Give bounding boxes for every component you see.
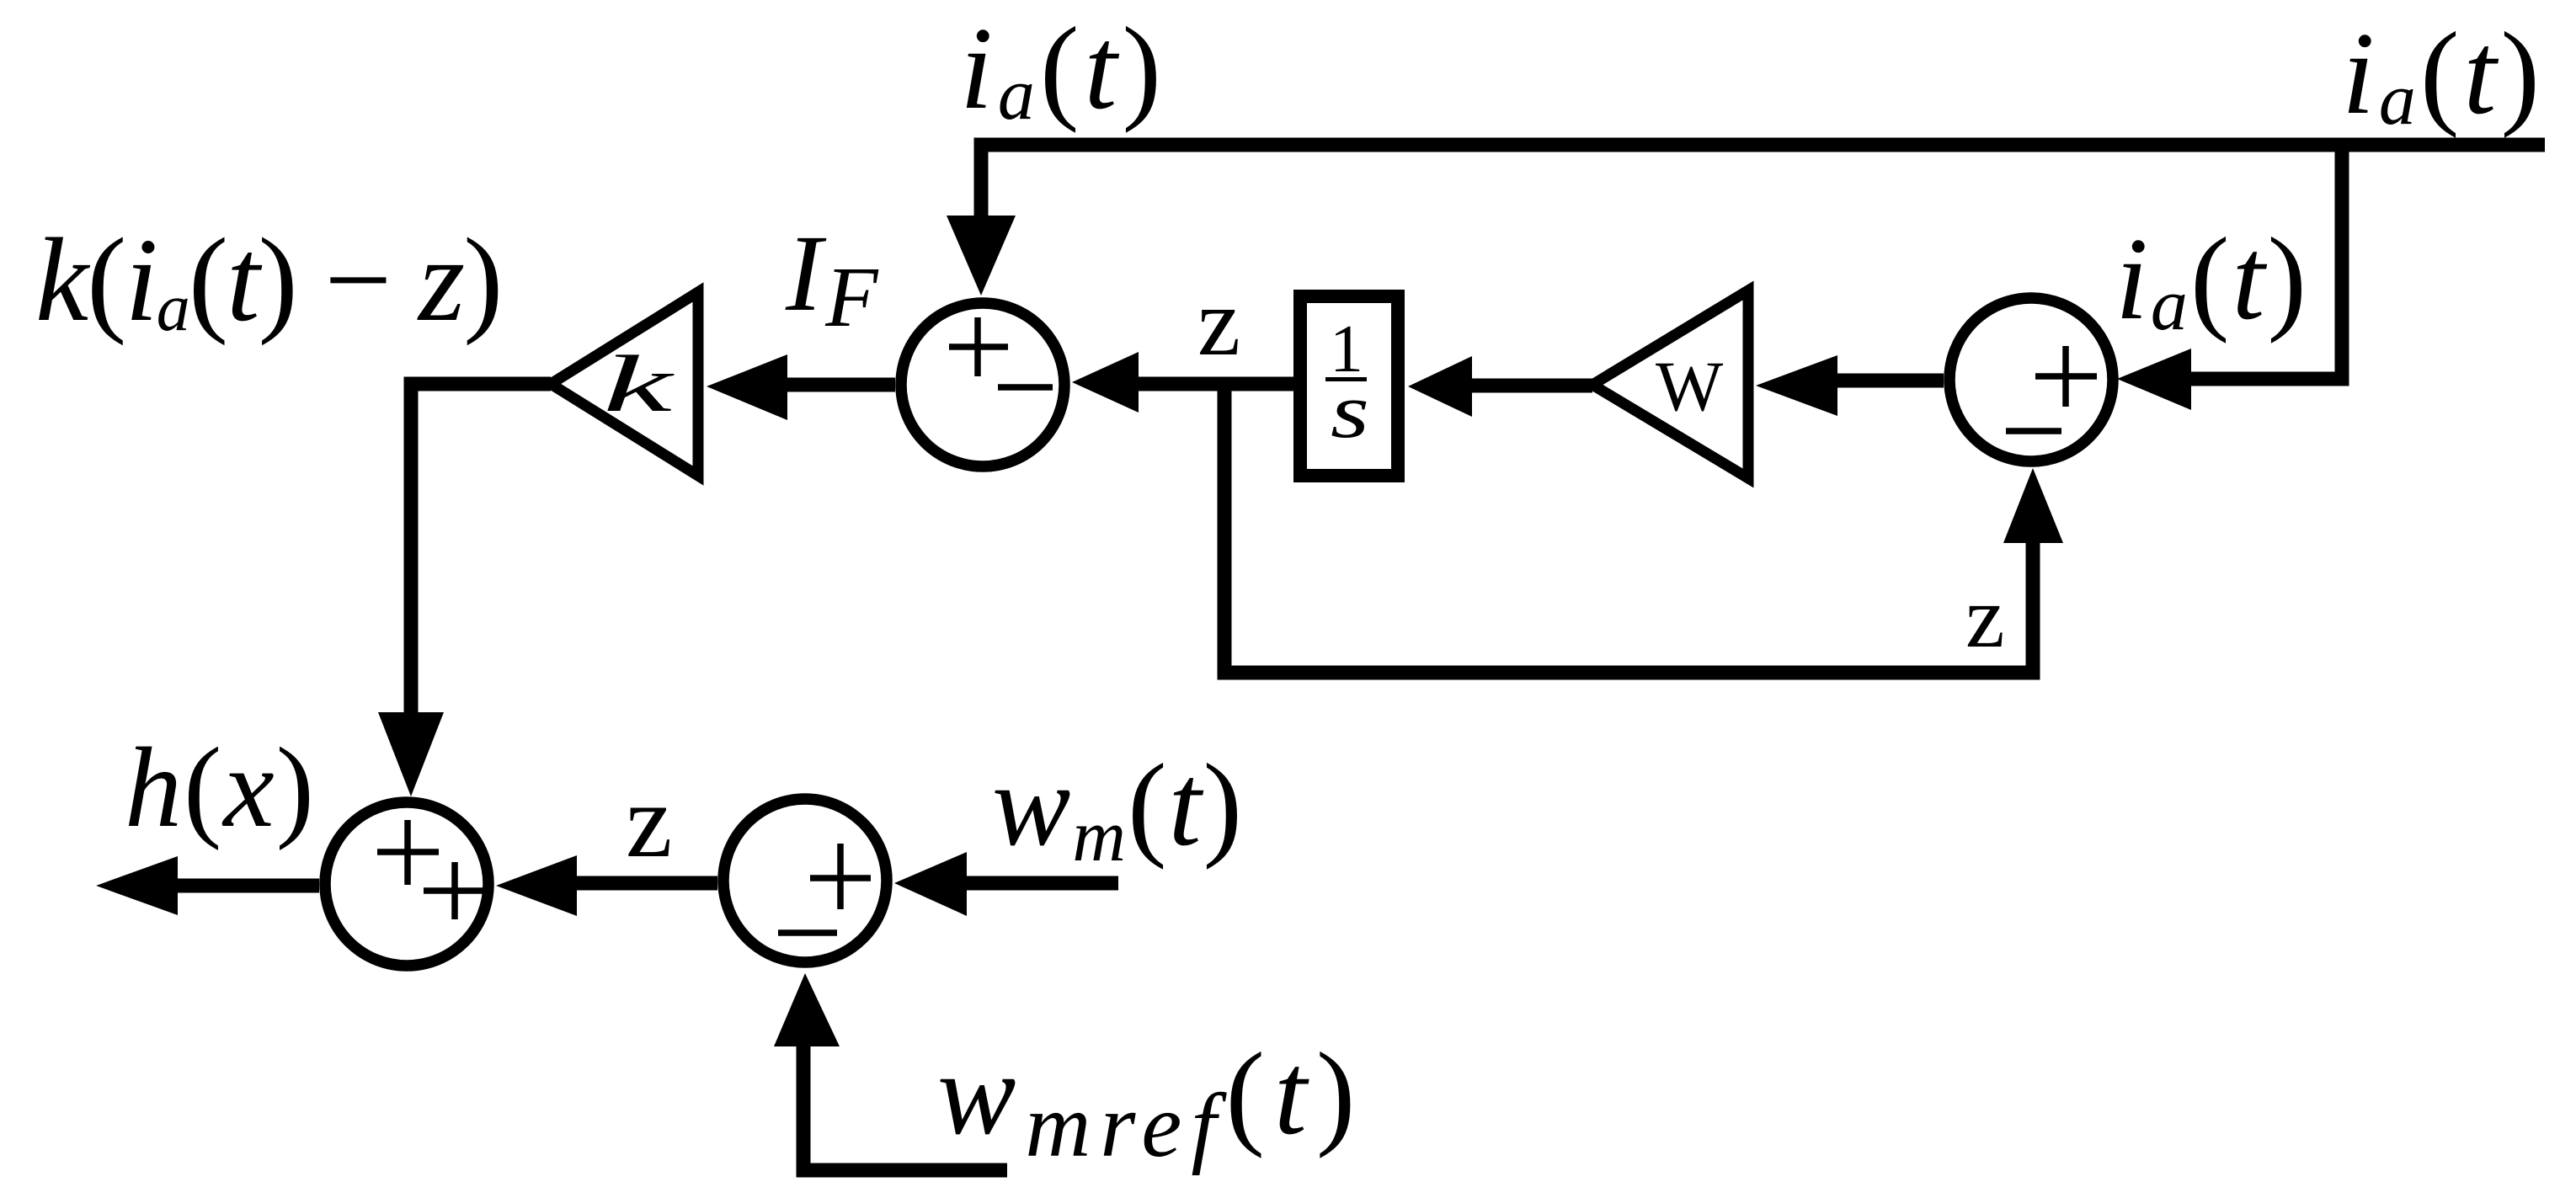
svg-text:z: z (1965, 567, 2005, 666)
svg-text:ia(t): ia(t) (2115, 214, 2309, 346)
svg-text:ia(t): ia(t) (2342, 8, 2544, 141)
svg-text:s: s (1331, 368, 1369, 454)
svg-text:h(x): h(x) (125, 725, 316, 851)
svg-text:ia(t): ia(t) (960, 3, 1166, 136)
svg-text:k: k (603, 338, 676, 429)
svg-text:z: z (1197, 269, 1240, 375)
svg-text:W: W (1656, 347, 1724, 426)
svg-text:z: z (626, 764, 672, 880)
svg-text:k(ia(t) − z): k(ia(t) − z) (35, 213, 501, 346)
